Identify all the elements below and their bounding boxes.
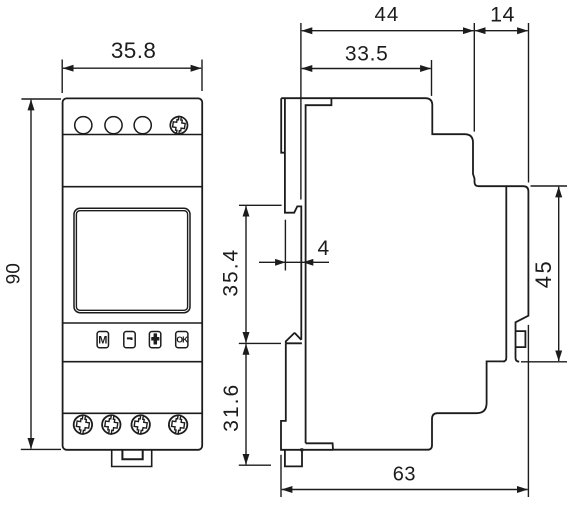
side view bottom outline <box>306 361 505 449</box>
bottom screw 3 <box>130 414 151 435</box>
dimension 4 arrow right <box>303 259 314 266</box>
dimension 35.4 extension top <box>239 204 282 206</box>
dimension 90 extension lines <box>21 98 61 100</box>
dimension 4 arrow left <box>275 259 286 266</box>
side view latch rectangle <box>516 331 526 347</box>
front view body outline <box>63 98 203 449</box>
svg-text:4: 4 <box>317 237 329 260</box>
side view back face inner line <box>306 98 332 443</box>
dimension 90 line <box>30 100 32 449</box>
side view bottom hook <box>286 333 302 343</box>
svg-text:OK: OK <box>176 334 189 344</box>
svg-text:45: 45 <box>531 259 556 288</box>
dimension 63 line <box>282 489 528 491</box>
svg-text:14: 14 <box>490 3 515 27</box>
svg-text:M: M <box>98 335 107 347</box>
front bottom tab inner <box>122 450 142 459</box>
dimension 33.5 extension line right <box>431 60 433 96</box>
button OK <box>176 332 189 348</box>
button plus <box>149 332 160 348</box>
svg-text:63: 63 <box>393 464 416 486</box>
dimension 44 extension line right <box>473 23 475 132</box>
side view front seam line <box>503 186 506 362</box>
bottom screw 4 <box>168 414 189 435</box>
svg-text:35.4: 35.4 <box>220 248 243 297</box>
front view terminal section line <box>63 412 203 414</box>
side view top and front outline <box>281 98 528 362</box>
bottom screw 2 <box>101 414 122 435</box>
dimension 44 extension line left <box>300 23 302 200</box>
dimension 35.4 extension bottom <box>239 342 281 344</box>
side view rear channel wall and catch <box>285 98 301 340</box>
dimension 45 extension bottom <box>521 361 567 363</box>
dimension 14 line <box>475 30 528 32</box>
dimension 63 extension right <box>527 325 529 497</box>
display window outer frame <box>74 208 190 312</box>
svg-text:33.5: 33.5 <box>345 43 389 66</box>
svg-text:35.8: 35.8 <box>111 38 156 63</box>
svg-text:44: 44 <box>374 3 399 26</box>
dimension 35.8 line <box>63 67 201 69</box>
top terminal screw <box>169 115 188 135</box>
dimension 63 extension left <box>280 455 282 497</box>
dimension 35.8 extension lines <box>61 60 63 94</box>
button minus <box>124 332 135 348</box>
top terminal hole 2 <box>105 117 122 134</box>
side view sliding clip <box>281 343 333 450</box>
dimension 4 line <box>259 261 329 263</box>
front view section line below display <box>63 322 203 324</box>
side view clip junction dot <box>300 448 303 451</box>
side view bottom tab <box>285 450 302 467</box>
side view rear flange outer <box>281 98 285 153</box>
display window inner frame <box>76 211 187 311</box>
top terminal hole 3 <box>134 117 151 134</box>
dimension 4 extension line <box>284 220 286 271</box>
front bottom tab outer <box>112 450 152 467</box>
svg-text:90: 90 <box>3 263 24 284</box>
top terminal hole 1 <box>75 117 92 134</box>
dimension 31.6 line <box>245 344 247 464</box>
dimension 14 extension line right <box>528 23 530 183</box>
dimension 33.5 line <box>302 68 431 70</box>
button M <box>97 332 108 348</box>
front view section line below buttons <box>63 361 203 363</box>
svg-text:31.6: 31.6 <box>220 383 243 432</box>
dimension 35.4 line <box>245 206 247 343</box>
bottom screw 1 <box>72 414 93 435</box>
front view section line below top circles <box>63 134 203 136</box>
dimension 45 line <box>558 187 560 361</box>
dimension 45 extension top <box>531 185 568 187</box>
dimension 31.6 extension bottom <box>239 464 271 466</box>
dimension 44 line <box>302 30 474 32</box>
front view section line above display <box>63 186 203 188</box>
